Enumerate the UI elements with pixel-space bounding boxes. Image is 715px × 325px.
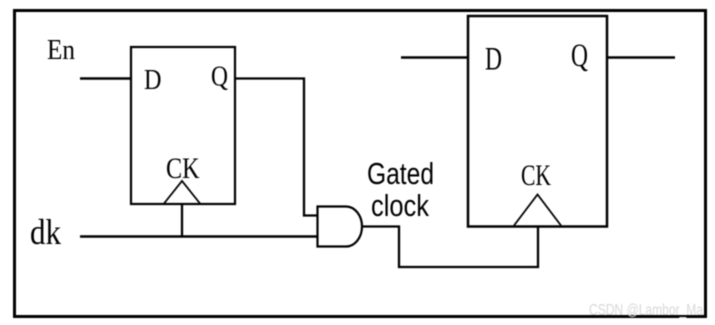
svg-text:D: D (144, 65, 162, 96)
svg-text:CSDN @Lambor_Ma: CSDN @Lambor_Ma (589, 302, 703, 319)
svg-text:Gated: Gated (367, 156, 434, 191)
svg-text:Q: Q (211, 62, 228, 93)
svg-text:En: En (47, 34, 75, 66)
wire dk to AND gate bottom input (80, 235, 318, 237)
svg-text:Q: Q (571, 38, 588, 74)
wire U2.Q output (607, 56, 675, 59)
flip-flop U1 (left D flip-flop) (131, 47, 235, 204)
svg-text:CK: CK (521, 160, 551, 192)
AND gate G1 (318, 207, 363, 247)
flip-flop U2 (right D flip-flop) (468, 16, 607, 227)
svg-text:clock: clock (371, 188, 429, 223)
wire AND gate output to U2.CK (gated clock net) (361, 226, 538, 267)
wire En to U1.D (80, 77, 131, 80)
svg-text:D: D (485, 42, 502, 78)
svg-text:dk: dk (30, 212, 61, 252)
U1 clock edge triangle (164, 181, 200, 204)
wire U2.D input (401, 56, 468, 59)
wire U1.Q to AND gate top input (235, 79, 318, 216)
U2 clock edge triangle (514, 195, 561, 226)
svg-text:CK: CK (166, 153, 200, 185)
wire U1 clock stub (181, 204, 183, 237)
